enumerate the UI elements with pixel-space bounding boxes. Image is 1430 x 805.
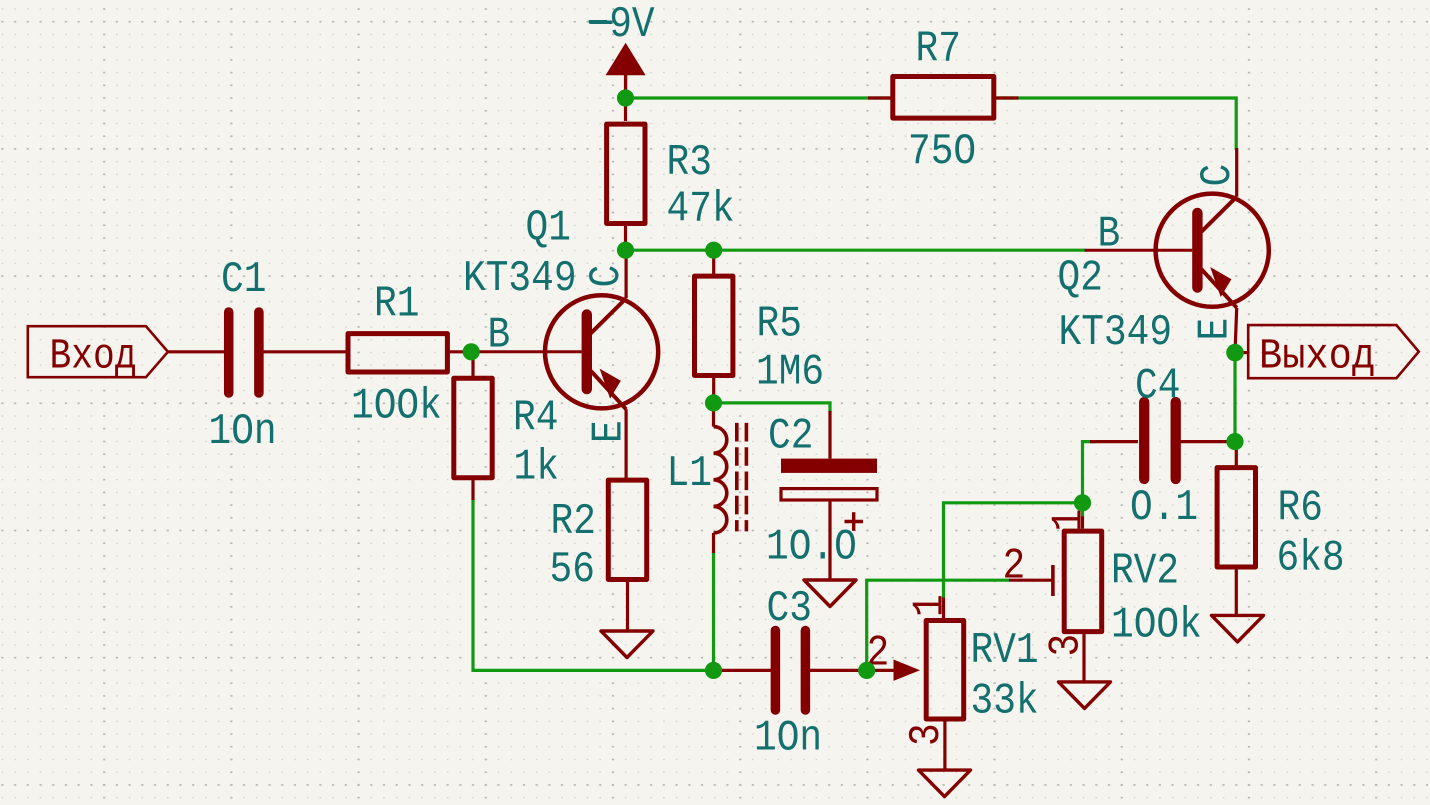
capacitor C1 xyxy=(229,312,346,393)
junction output node xyxy=(1226,344,1244,362)
resistor R4 xyxy=(454,352,492,500)
svg-text:56: 56 xyxy=(550,546,595,595)
power symbol -9V xyxy=(607,45,643,98)
junction R5 bottom node xyxy=(705,394,722,411)
label -9V minus bar xyxy=(590,21,613,25)
capacitor C3 xyxy=(714,631,867,711)
wire RV1 pin1 riser to RV2 pin1 junction xyxy=(944,503,1083,598)
wire C3 right junction up to RV2 wiper xyxy=(867,580,1010,670)
svg-text:C: C xyxy=(583,265,632,288)
resistor R6 xyxy=(1217,442,1255,616)
junction L1 bottom node xyxy=(705,662,722,679)
junction R3 collector node xyxy=(617,242,634,259)
svg-text:75O: 75O xyxy=(908,128,976,177)
svg-text:R7: R7 xyxy=(916,25,961,74)
svg-text:E: E xyxy=(1191,318,1240,341)
svg-text:1On: 1On xyxy=(754,714,822,763)
svg-text:1M6: 1M6 xyxy=(756,348,824,397)
svg-text:1k: 1k xyxy=(514,443,559,492)
svg-text:3: 3 xyxy=(1042,634,1091,657)
svg-text:1OOk: 1OOk xyxy=(1111,601,1202,650)
svg-text:Вход: Вход xyxy=(50,332,137,380)
wire R5 bottom junction to C2 top xyxy=(714,403,831,413)
svg-text:Выход: Выход xyxy=(1259,333,1375,381)
wire collector bus y=250 xyxy=(626,249,1086,252)
potentiometer RV2 xyxy=(1009,516,1102,682)
capacitor C4 xyxy=(1090,402,1235,479)
svg-text:RV2: RV2 xyxy=(1111,547,1179,596)
ground below R6 xyxy=(1212,615,1264,642)
svg-text:KT349: KT349 xyxy=(1059,309,1173,358)
wire RV2 pin1 to C4 left xyxy=(1083,442,1096,517)
svg-text:1OOk: 1OOk xyxy=(351,382,442,431)
svg-text:R1: R1 xyxy=(374,280,419,329)
svg-text:2: 2 xyxy=(1003,542,1026,591)
wire port to C1 xyxy=(168,350,225,353)
wire Q2 emitter to C4 node xyxy=(1233,354,1236,442)
transistor Q2 xyxy=(1085,148,1269,354)
svg-text:R4: R4 xyxy=(513,394,558,443)
svg-text:C2: C2 xyxy=(768,412,813,461)
svg-text:RV1: RV1 xyxy=(971,627,1039,676)
svg-text:E: E xyxy=(585,420,634,443)
resistor R1 xyxy=(348,334,471,372)
wire L1 bottom to junction xyxy=(712,552,715,670)
svg-text:1On: 1On xyxy=(209,408,277,457)
svg-text:33k: 33k xyxy=(971,677,1039,726)
junction Q1 base node xyxy=(463,343,480,360)
svg-text:47k: 47k xyxy=(667,185,735,234)
port Выход xyxy=(1248,325,1419,381)
junction C3 right node xyxy=(858,662,875,679)
capacitor C2 polarized xyxy=(781,411,877,580)
svg-text:O.1: O.1 xyxy=(1130,484,1198,533)
resistor R5 xyxy=(695,250,733,403)
svg-text:−9V: −9V xyxy=(587,1,656,50)
junction RV2 pin1 node xyxy=(1074,494,1091,511)
svg-text:R5: R5 xyxy=(757,300,802,349)
wire R4 bottom to bottom bus xyxy=(473,499,714,670)
ground below RV2 xyxy=(1059,682,1111,709)
wire R7 right to Q2 collector xyxy=(997,98,1237,150)
svg-text:KT349: KT349 xyxy=(463,255,577,304)
ground below C2 xyxy=(804,580,856,607)
resistor R3 xyxy=(607,73,645,250)
ground below RV1 xyxy=(919,770,971,797)
svg-text:Q2: Q2 xyxy=(1058,254,1103,303)
wire -9V junction to R7 xyxy=(626,96,891,99)
svg-text:B: B xyxy=(488,311,511,360)
svg-text:L1: L1 xyxy=(667,450,712,499)
svg-text:1: 1 xyxy=(906,594,955,617)
inductor L1 xyxy=(714,403,747,553)
junction C4 R6 node xyxy=(1226,433,1243,450)
svg-text:1: 1 xyxy=(1045,509,1094,532)
port Вход xyxy=(28,326,168,380)
resistor R7 xyxy=(868,77,1019,119)
svg-text:R6: R6 xyxy=(1278,484,1323,533)
svg-text:1O.O: 1O.O xyxy=(766,523,857,572)
transistor Q1 xyxy=(471,250,658,478)
svg-text:R2: R2 xyxy=(551,498,596,547)
svg-text:B: B xyxy=(1098,210,1121,259)
svg-text:6k8: 6k8 xyxy=(1277,534,1345,583)
svg-text:C: C xyxy=(1194,164,1243,187)
potentiometer RV1 xyxy=(867,598,964,771)
junction R5 top node xyxy=(705,242,722,259)
svg-text:3: 3 xyxy=(903,723,952,746)
ground below R2 xyxy=(601,631,653,658)
svg-text:C1: C1 xyxy=(221,256,266,305)
resistor R2 xyxy=(608,480,646,631)
svg-text:R3: R3 xyxy=(667,139,712,188)
svg-text:C4: C4 xyxy=(1135,362,1180,411)
svg-text:Q1: Q1 xyxy=(526,204,571,253)
junction -9V node xyxy=(617,89,634,106)
svg-text:C3: C3 xyxy=(767,585,812,634)
wire junction to port xyxy=(1235,351,1248,354)
